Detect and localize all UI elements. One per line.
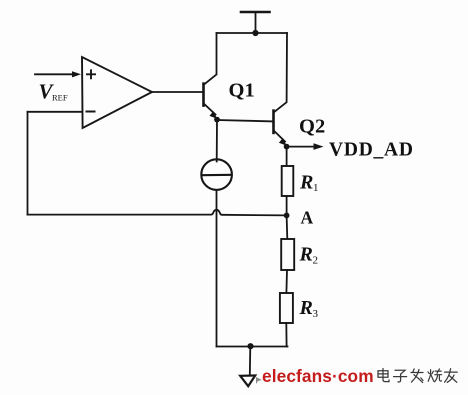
svg-text:3: 3	[313, 308, 319, 320]
node: Q2 emitter junction (VDD_AD tap)	[284, 144, 290, 150]
svg-text:A: A	[301, 208, 314, 228]
watermark Chinese character 子	[394, 370, 407, 382]
node A	[284, 213, 290, 219]
svg-text:2: 2	[313, 255, 319, 267]
watermark Chinese character 友	[445, 369, 458, 383]
wire: Q1 collector riser	[204, 33, 217, 85]
wire: R2 to R3	[285, 270, 288, 293]
watermark elecfans.com 电子发烧友	[0, 0, 1, 1]
resistor R3	[280, 293, 293, 323]
wire: top rail	[217, 32, 288, 34]
current source I1	[201, 159, 232, 190]
transistor Q1	[204, 84, 218, 119]
watermark Chinese character 电	[378, 369, 389, 382]
wire: R1 to node A	[286, 196, 288, 215]
svg-text:REF: REF	[52, 93, 68, 103]
wire: op-amp output to Q1 base	[152, 91, 204, 93]
ground	[240, 376, 255, 387]
wire: VDD_AD arrow	[287, 143, 324, 150]
svg-text:R: R	[299, 297, 313, 319]
wire: current source to bottom rail	[216, 190, 218, 347]
wire: R3 to bottom rail	[285, 323, 287, 347]
wire: Q2 emitter down to R1	[286, 147, 288, 166]
svg-text:Q2: Q2	[299, 116, 325, 138]
wire: Q2 collector riser	[274, 33, 287, 112]
wire: feedback bottom run with hop over current-source line	[28, 210, 287, 216]
wire: power stem	[255, 12, 257, 33]
power supply bar (VCC rail symbol)	[241, 11, 270, 14]
svg-text:R: R	[299, 172, 313, 194]
wire: Q1 emitter to Q2 base	[217, 120, 274, 121]
resistor R1	[282, 166, 294, 196]
node: ground junction	[247, 343, 253, 349]
svg-text:VDD_AD: VDD_AD	[329, 140, 413, 161]
wire: feedback left vertical	[27, 112, 29, 215]
svg-text:R: R	[299, 244, 313, 266]
wire: non-inverting input with arrow	[35, 71, 81, 77]
op-amp U1	[82, 57, 152, 128]
wire: Q1 emitter to current source	[216, 120, 218, 162]
watermark Chinese character 烧	[428, 369, 442, 382]
node: Q1 emitter junction	[214, 117, 220, 123]
wire: inverting input	[28, 111, 83, 113]
svg-text:Q1: Q1	[229, 80, 255, 102]
node: top rail junction	[252, 30, 258, 36]
watermark cursor mark	[256, 377, 262, 384]
resistor R2	[281, 239, 294, 270]
watermark Chinese character 发	[411, 369, 423, 383]
wire: bottom rail	[217, 346, 288, 348]
transistor Q2	[274, 111, 287, 146]
svg-text:1: 1	[313, 182, 319, 194]
wire: ground stem	[249, 346, 252, 375]
wire: node A to R2	[286, 215, 289, 239]
